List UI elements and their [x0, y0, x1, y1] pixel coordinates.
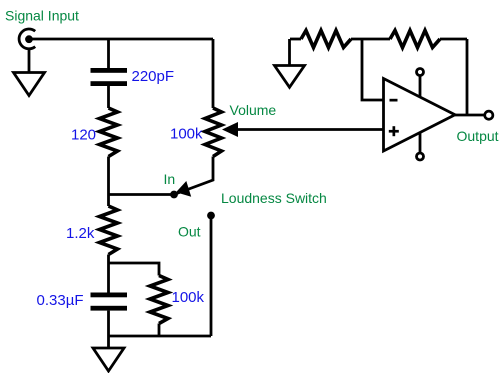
- svg-text:100k: 100k: [172, 289, 205, 306]
- wire: R4 to R5 (through junction): [351, 38, 390, 41]
- capacitor C2 0.33uF: [91, 293, 128, 311]
- svg-text:100k: 100k: [170, 126, 203, 143]
- node In (dot): [170, 191, 178, 199]
- wire: C1 to R1: [107, 86, 110, 108]
- wire: wiper to op-amp + input: [236, 128, 384, 131]
- op-amp plus sign: [389, 126, 399, 136]
- ground (bottom): [93, 336, 124, 371]
- svg-text:In: In: [164, 171, 176, 187]
- connector J1 (signal input jack): [19, 29, 35, 49]
- svg-text:0.33µF: 0.33µF: [37, 292, 84, 309]
- resistor R5 (horizontal, right / feedback): [390, 31, 440, 48]
- svg-text:120: 120: [71, 127, 96, 144]
- resistor R3 100k: [150, 276, 168, 324]
- wire: C2 to bottom rail: [107, 311, 110, 336]
- node Out (dot): [207, 212, 215, 220]
- op-amp power pin (bottom): [417, 133, 424, 161]
- resistor R2 1.2k: [100, 206, 118, 255]
- resistor R4 (horizontal, left): [301, 31, 351, 48]
- connector (output terminal): [485, 111, 493, 119]
- wire: bottom rail: [109, 335, 212, 338]
- capacitor C1 220pF: [91, 68, 128, 86]
- ground (input): [14, 49, 45, 96]
- potentiometer VR1 100k: [205, 108, 222, 157]
- wire: R2 to C2 (through 100k tee): [107, 255, 110, 293]
- wire: op-amp output: [455, 114, 484, 117]
- wire: branch to R3: [109, 263, 160, 276]
- svg-text:Volume: Volume: [230, 102, 277, 118]
- svg-text:Output: Output: [457, 128, 499, 144]
- wire: feedback right vertical: [466, 39, 469, 115]
- svg-text:220pF: 220pF: [132, 68, 175, 85]
- pot wiper arrow: [222, 122, 238, 137]
- svg-text:1.2k: 1.2k: [66, 225, 95, 242]
- wire: R3 to bottom rail: [158, 324, 161, 337]
- wire: R5 to right vertical: [440, 38, 467, 41]
- wire: input to pot top: [29, 38, 213, 41]
- svg-text:Out: Out: [178, 224, 201, 240]
- op-amp power pin (top): [417, 69, 424, 98]
- ground (op-amp input): [275, 39, 305, 87]
- wire: junction down to inverting input: [362, 39, 384, 100]
- wire: ground to R4: [290, 38, 301, 41]
- wire: In branch: [109, 193, 173, 196]
- op-amp minus sign: [390, 99, 398, 102]
- svg-text:Signal Input: Signal Input: [5, 8, 79, 24]
- wire: pot top: [212, 39, 215, 108]
- wire: Out down to bottom rail: [210, 216, 213, 337]
- wire: R1 to R2 (through In tee): [107, 157, 110, 207]
- wire: tee down to C1: [107, 39, 110, 68]
- op-amp U1: [384, 79, 456, 152]
- svg-text:Loudness Switch: Loudness Switch: [221, 190, 327, 206]
- wire: pot bottom / switch pole: [174, 157, 213, 195]
- resistor R1 120: [100, 108, 118, 157]
- switch arrow: [176, 181, 191, 197]
